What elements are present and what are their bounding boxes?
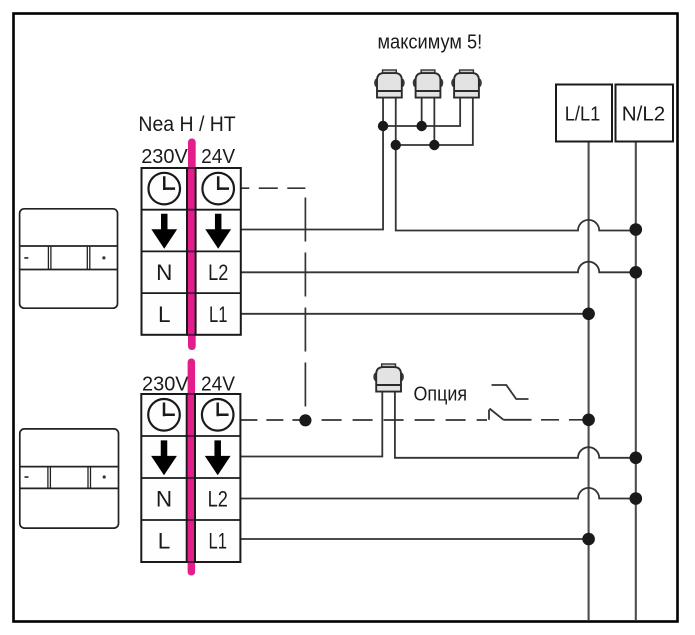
svg-text:L: L (158, 528, 171, 553)
svg-text:L2: L2 (208, 486, 228, 511)
svg-text:максимум 5!: максимум 5! (378, 32, 483, 54)
svg-text:L: L (158, 302, 171, 327)
svg-text:L/L1: L/L1 (565, 103, 601, 125)
svg-text:230V: 230V (141, 146, 188, 168)
svg-text:L1: L1 (209, 302, 228, 327)
svg-text:Опция: Опция (414, 384, 468, 406)
svg-text:N: N (156, 486, 172, 511)
svg-text:L1: L1 (208, 528, 227, 553)
svg-text:24V: 24V (201, 146, 236, 168)
svg-text:L2: L2 (208, 260, 228, 285)
svg-text:N: N (156, 260, 172, 285)
svg-text:24V: 24V (201, 374, 236, 396)
svg-text:230V: 230V (142, 374, 189, 396)
svg-text:Nea H / HT: Nea H / HT (138, 113, 235, 136)
svg-text:N/L2: N/L2 (622, 103, 666, 125)
